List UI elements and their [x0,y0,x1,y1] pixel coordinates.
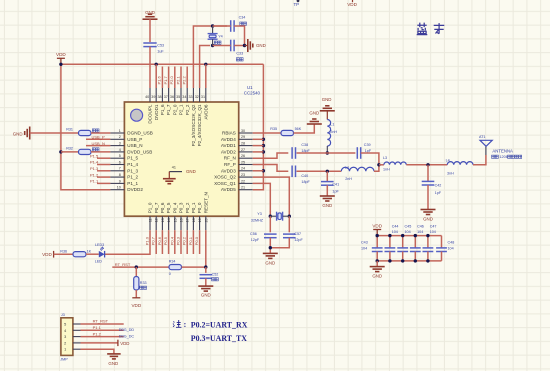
svg-text:38: 38 [157,95,161,99]
pin 1 DGND_USB [110,129,152,136]
svg-text:LED3: LED3 [95,243,104,247]
junction [426,234,429,237]
svg-text:P1_7: P1_7 [166,104,171,115]
svg-text:P1.3: P1.3 [90,166,99,171]
svg-text:3: 3 [119,142,121,146]
svg-text:AVDD3: AVDD3 [221,168,236,173]
svg-text::: : [184,320,187,329]
svg-text:39: 39 [151,95,155,99]
svg-text:P0.6: P0.6 [157,236,162,245]
svg-text:21: 21 [241,186,245,190]
ground GND (above L1) [320,97,335,120]
ground GND (below C56) [263,253,278,265]
svg-text:P0.1: P0.1 [188,236,193,245]
pin 21 AVDD5 [221,186,253,193]
note UART mapping line 1 [173,320,182,327]
svg-text:18: 18 [192,218,196,222]
inductor L3 [379,156,406,172]
junction [269,246,272,249]
wire P0.3 [180,230,182,254]
pin 34 P2_2 [182,88,190,115]
wire [253,170,264,172]
svg-text:104: 104 [448,246,454,250]
svg-text:2: 2 [64,341,66,345]
svg-text:L3: L3 [383,156,387,160]
junction VDD/DVDD1 [155,63,158,66]
svg-text:GND: GND [322,97,332,102]
svg-text:1206: 1206 [499,155,507,159]
pin 24 AVDD3 [221,167,253,174]
capacitor C41 [321,171,340,196]
svg-text:DVDD1: DVDD1 [154,104,159,120]
svg-text:R32: R32 [66,147,73,151]
svg-text:7: 7 [119,167,121,171]
svg-text:104: 104 [392,230,398,234]
pin1 indicator circle [131,109,143,121]
svg-text:C47: C47 [430,224,437,228]
svg-text:3nH: 3nH [447,172,454,176]
svg-text:4: 4 [119,148,121,152]
wire VDD left vertical to DVDD2 [61,64,111,189]
pin 23 XOSC_Q2 [214,173,253,180]
svg-text:C34: C34 [239,16,246,20]
pin 22 XOSC_Q1 [214,179,253,186]
svg-text:P0.4: P0.4 [169,236,174,245]
svg-text:P1.2: P1.2 [90,172,99,177]
svg-text:P2.2: P2.2 [182,75,187,84]
svg-text:P0.3=UART_TX: P0.3=UART_TX [191,334,247,343]
junction VDD/AVDD6 [204,63,207,66]
wire P0.7 [155,230,157,254]
pin 16 P0_3 [179,202,184,230]
svg-text:16: 16 [180,218,184,222]
svg-text:Y3: Y3 [257,212,262,216]
svg-text:C52: C52 [212,272,219,276]
svg-text:AVDD1: AVDD1 [221,143,236,148]
wire P0.4 [174,230,176,254]
svg-text:GND: GND [186,169,196,174]
wire to antenna [473,155,486,165]
svg-text:RT_RST: RT_RST [115,262,131,267]
svg-text:DBG_DC: DBG_DC [119,335,135,339]
pin 12 P0_7 [154,202,159,230]
pin 39 DVDD1 [151,88,159,120]
net P1.2 (J3) [81,331,124,336]
svg-text:P2.1: P2.1 [175,75,180,84]
wire [253,145,264,147]
junction AVDD [262,138,265,141]
svg-text:R31: R31 [66,128,73,132]
svg-text:USB_N: USB_N [92,141,105,146]
svg-text:P2_0: P2_0 [172,104,177,115]
pin 7 P1_3 [110,167,138,174]
svg-text:0: 0 [169,272,171,276]
net P1.3 [90,166,110,171]
svg-text:C56: C56 [250,232,257,236]
svg-text:P0_5: P0_5 [166,202,171,213]
svg-text:RESET_N: RESET_N [203,192,208,213]
net P1.5 [90,153,110,158]
junction Y4 bottom [211,44,214,47]
svg-text:VDD: VDD [372,223,382,228]
capacitor C39 [357,143,372,159]
connector J3 pin 3 [64,335,80,339]
svg-text:34: 34 [182,95,186,99]
svg-text:DVDD_USB: DVDD_USB [127,149,152,154]
svg-text:9: 9 [119,179,121,183]
inductor L1 [327,120,337,147]
capacitor C40 [292,166,310,185]
wire RESET_N down [205,230,207,267]
svg-text:1pF: 1pF [435,191,442,195]
svg-text:2: 2 [119,135,121,139]
junction [135,265,138,268]
svg-text:12: 12 [155,218,159,222]
svg-text:19: 19 [198,218,202,222]
title text [417,23,445,35]
svg-text:31: 31 [201,95,205,99]
capacitor C38 [292,143,310,159]
svg-text:35: 35 [176,95,180,99]
svg-text:AT1: AT1 [479,135,486,139]
pin 2 USB_P [110,135,142,142]
capacitor C56 [250,232,277,242]
pin 25 RF_P [224,160,253,167]
svg-text:RF_P: RF_P [224,162,236,167]
wire AVDD6 to VDD rail [205,64,207,88]
wire [149,19,151,42]
junction Y3 right [288,215,291,218]
capacitor C33 [231,40,243,61]
svg-text:P1.6: P1.6 [157,75,162,84]
svg-text:C46: C46 [417,224,424,228]
resistor R32 [61,147,111,155]
antenna AT1 [479,135,492,146]
junction L1/C38 [326,151,329,154]
pin 33 P2_3/XOSC32K_Q2 [188,88,196,146]
junction [204,265,207,268]
capacitor C48 [436,236,454,261]
resistor R31 [66,128,99,136]
svg-text:104: 104 [430,230,436,234]
pad 41 ground (inside chip) [163,166,196,184]
wire J3 pin1 to GND [81,349,114,354]
svg-text:56K: 56K [295,127,302,131]
svg-text:1: 1 [64,348,66,352]
svg-text:6: 6 [119,160,121,164]
svg-text:P0.0: P0.0 [194,236,199,245]
svg-text:C38: C38 [301,143,308,147]
wire [253,138,264,140]
svg-text:12pF: 12pF [294,238,303,242]
pin 27 AVDD2 [221,148,253,155]
svg-text:3: 3 [64,335,66,339]
pin 38 P1_6 [157,88,165,115]
pin 17 P0_2 [185,202,190,230]
svg-text:TP: TP [294,2,300,7]
connector J3 [61,313,73,355]
capacitor C34 [231,16,247,32]
wire [297,152,356,154]
svg-text:P0.3: P0.3 [176,236,181,245]
IC U1 CC2540 body [124,102,238,216]
svg-text:P1_2: P1_2 [127,175,138,180]
svg-text:P2.0: P2.0 [169,75,174,84]
net P2.1 [175,67,181,89]
ground GND (above R35) [307,111,322,124]
svg-text:P1.4: P1.4 [90,160,99,165]
svg-text:P0_4: P0_4 [172,202,177,213]
svg-text:XOSC_Q1: XOSC_Q1 [214,181,236,186]
pin 31 AVDD6 [201,88,209,119]
svg-text:P0_2: P0_2 [185,202,190,213]
svg-text:P1.0: P1.0 [145,236,150,245]
svg-text:C44: C44 [392,224,399,228]
pin 28 AVDD1 [221,142,253,149]
svg-text:GND: GND [108,361,118,366]
svg-text:P0.2: P0.2 [182,236,187,245]
svg-text:VDD: VDD [42,252,52,257]
svg-text:104: 104 [417,230,423,234]
crystal Y4 [208,26,223,46]
net P1.1 [90,179,110,184]
svg-text:C53: C53 [157,44,164,48]
svg-text:1K: 1K [87,249,92,253]
pin 20 RESET_N [203,192,208,230]
pin 6 P1_4 [110,160,138,167]
svg-text:104: 104 [405,230,411,234]
svg-text:P1_1: P1_1 [127,181,138,186]
svg-text:5: 5 [64,323,66,327]
capacitor C44 [385,224,399,261]
svg-text:C39: C39 [364,143,371,147]
wire P1.0 to LED [105,230,150,254]
wire P0.6 [161,230,163,254]
junction Y4 top [211,24,214,27]
wire GND to R31 [30,132,79,134]
svg-text:1uF: 1uF [157,50,164,54]
svg-text:18pF: 18pF [301,180,310,184]
svg-text:P1_6: P1_6 [160,104,165,115]
ground GND (J3) [107,354,121,366]
net P1.6 [157,67,163,89]
svg-text:RT_RST: RT_RST [93,319,109,324]
svg-text:P1_4: P1_4 [127,162,138,167]
junction [426,259,429,262]
svg-text:AVDD4: AVDD4 [221,137,236,142]
svg-text:GND: GND [256,43,266,48]
svg-text:P0_1: P0_1 [191,202,196,213]
junction Y3 left [269,215,272,218]
svg-text:37: 37 [164,95,168,99]
svg-text:2nH: 2nH [345,177,352,181]
svg-text:104: 104 [361,246,367,250]
pin 37 P1_7 [164,88,172,115]
power VDD (below R33) [131,298,141,308]
wire XOSC32K_Q2 up [193,26,227,88]
svg-text:P0_0: P0_0 [197,202,202,213]
net P2.2 [182,67,188,89]
wire [182,266,206,268]
wire P0.2 [186,230,188,254]
svg-text:C48: C48 [448,241,455,245]
wire L2 to node [374,165,379,172]
pin 19 P0_0 [197,202,202,230]
wire cap bank top rail [377,235,441,237]
power VDD (cap bank) [372,223,382,235]
junction [388,259,391,262]
junction C41 tap [326,170,329,173]
svg-text:GND: GND [423,216,433,221]
svg-text:P1.7: P1.7 [163,75,168,84]
wire [406,164,447,166]
wire [234,26,244,46]
svg-text:GND: GND [309,111,319,116]
capacitor C47 [423,224,437,261]
svg-text:30: 30 [241,129,245,133]
wire P0.0 [199,230,201,254]
svg-text:27: 27 [241,148,245,152]
capacitor C43 [361,236,383,261]
svg-text:AVDD5: AVDD5 [221,187,236,192]
wire RF_N [253,153,289,158]
svg-text:17: 17 [186,218,190,222]
pin 14 P0_5 [166,202,171,230]
LED LED3 [95,243,105,264]
capacitor C52 [200,267,219,286]
svg-text:CC2540: CC2540 [244,91,261,96]
svg-text:J3: J3 [61,313,65,317]
svg-text:P0_7: P0_7 [154,202,159,213]
pin 32 P2_4/XOSC32K_Q1 [195,88,203,146]
svg-text:C41: C41 [332,182,339,186]
svg-text:P1_5: P1_5 [127,156,138,161]
svg-text:11: 11 [149,218,153,222]
net P1.7 [163,67,169,89]
wire [269,216,271,232]
wire [297,170,342,172]
svg-text:P0.7: P0.7 [151,236,156,245]
wire XOSC32K_Q1 up [200,46,210,89]
capacitor C46 [410,224,424,261]
svg-text:10: 10 [117,186,121,190]
svg-text:P2_4/XOSC32K_Q1: P2_4/XOSC32K_Q1 [197,104,202,146]
svg-text:DCOUPL: DCOUPL [148,104,153,124]
power VDD (LED row) [42,251,54,258]
wire P0.5 [168,230,170,254]
capacitor C53 [143,43,164,54]
svg-text:VDD: VDD [347,2,357,7]
pin 4 DVDD_USB [110,148,152,155]
svg-text:RF_N: RF_N [224,156,236,161]
svg-text:GND: GND [13,131,23,136]
svg-text:P1_3: P1_3 [127,168,138,173]
junction [243,44,246,47]
ground GND (top, for C53) [143,10,158,19]
wire R35 to GND [294,124,315,133]
svg-text:USB_P: USB_P [127,137,142,142]
label antenna note [492,155,522,159]
junction [414,259,417,262]
svg-text:P0.5: P0.5 [163,236,168,245]
svg-text:1nH: 1nH [383,168,390,172]
svg-text:P1_0: P1_0 [148,202,153,213]
svg-text:LED: LED [95,260,103,264]
svg-text:22: 22 [241,179,245,183]
capacitor C45 [397,224,411,261]
wire RF_P [253,165,289,172]
crystal Y3 [251,212,289,223]
svg-text:L1: L1 [330,123,334,127]
svg-text:13: 13 [161,218,165,222]
svg-text:C43: C43 [361,241,368,245]
svg-text:DGND_USB: DGND_USB [127,131,153,136]
wire [269,238,271,253]
test point TP [294,0,300,7]
svg-text:P2_2: P2_2 [185,104,190,115]
ground GND (below C42) [421,210,436,222]
connector J3 pin 5 [64,323,80,327]
svg-text:GND: GND [372,273,382,278]
wire [234,45,244,47]
svg-text:18pF: 18pF [301,149,310,153]
wire [253,151,264,153]
ground GND (below C52) [198,286,213,298]
net RT_RST [112,262,169,267]
junction AVDD [262,144,265,147]
wire VDD rail [61,63,264,65]
junction [377,163,380,166]
pin 11 P1_0 [148,202,153,230]
resistor R35 [270,127,301,136]
wire cap bank bottom rail [377,260,441,262]
svg-text:33: 33 [188,95,192,99]
svg-text:32MHZ: 32MHZ [251,219,264,223]
svg-text:AVDD2: AVDD2 [221,149,236,154]
junction [376,234,379,237]
pin 9 P1_1 [110,179,138,186]
pin 26 RF_N [224,154,253,161]
svg-text:C45: C45 [405,224,412,228]
ground GND (below C41) [320,196,335,208]
power VDD (J3 pin2) [81,340,130,347]
wire C39 down [361,153,379,165]
svg-text:26: 26 [241,154,245,158]
pin 5 P1_5 [110,154,138,161]
svg-text:XOSC_Q2: XOSC_Q2 [214,175,236,180]
junction VDD/left [59,63,62,66]
svg-text:USB_P: USB_P [92,135,105,140]
svg-text:P2_3/XOSC32K_Q2: P2_3/XOSC32K_Q2 [191,104,196,146]
svg-text:R33: R33 [140,281,147,285]
connector J3 pin 1 [64,348,80,352]
svg-text:41: 41 [172,166,176,170]
svg-text:P0.2=UART_RX: P0.2=UART_RX [191,320,248,329]
svg-text:29: 29 [241,135,245,139]
junction [388,234,391,237]
pin 36 P2_0 [170,88,178,115]
svg-text:36: 36 [170,95,174,99]
svg-text:14: 14 [167,218,171,222]
svg-text:DVDD2: DVDD2 [127,187,143,192]
ground GND (right of C33) [245,39,266,52]
ground GND (cap bank) [370,267,385,279]
junction AVDD [262,169,265,172]
wire [54,253,73,255]
connector J3 pin 2 [64,341,80,345]
pin 35 P2_1 [176,88,184,115]
wire C53 to DCOUPL [149,47,151,88]
